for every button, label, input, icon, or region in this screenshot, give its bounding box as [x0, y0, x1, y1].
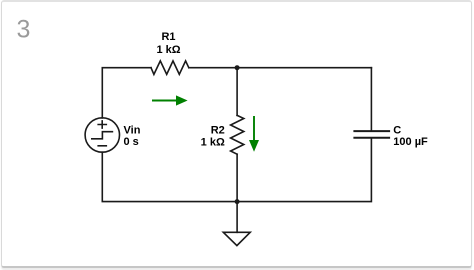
svg-text:1 kΩ: 1 kΩ [156, 44, 180, 56]
wire: right rail top (top-right corner to capacitor) [370, 68, 372, 131]
svg-text:3: 3 [17, 15, 31, 43]
wire: right rail bottom (capacitor to bottom-right corner) [237, 138, 371, 202]
svg-text:1 kΩ: 1 kΩ [201, 136, 225, 148]
voltage source V1 circle [85, 118, 119, 152]
resistor R2 zigzag [231, 115, 244, 154]
voltage source step waveform [92, 132, 113, 139]
current arrow through R1 (green, right) [152, 95, 188, 105]
voltage source minus sign [98, 145, 106, 147]
voltage source plus sign [98, 121, 106, 128]
svg-text:R2: R2 [211, 124, 225, 136]
node: junction dot at bottom (ground net) [235, 199, 240, 204]
wire: ground lead [236, 202, 238, 233]
current arrow through R2 (green, down) [249, 116, 259, 152]
svg-text:C: C [393, 125, 401, 137]
wire: R2 bottom lead [236, 154, 238, 201]
svg-text:0 s: 0 s [124, 136, 139, 148]
capacitor C top plate [354, 130, 389, 132]
wire: left rail bottom (source to bottom-left corner) [102, 152, 237, 201]
resistor R1 zigzag [151, 61, 189, 75]
wire: R2 top lead [236, 68, 238, 116]
node: junction dot at top (R1/R2/C net) [235, 65, 240, 70]
svg-text:R1: R1 [161, 31, 175, 43]
wire: left rail top (source to top-left corner) [102, 68, 151, 118]
ground symbol [223, 232, 250, 245]
svg-text:100 µF: 100 µF [393, 136, 428, 148]
wire: top rail from R1 to top-right corner [189, 67, 372, 69]
capacitor C bottom plate [354, 137, 389, 139]
svg-text:Vin: Vin [124, 125, 141, 137]
